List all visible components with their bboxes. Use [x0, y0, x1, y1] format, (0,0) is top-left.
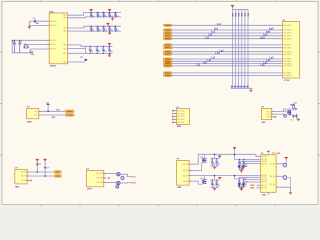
- wire bottom stub: [267, 192, 269, 195]
- svg-text:C?: C?: [33, 18, 35, 20]
- wire capB top rail: [210, 179, 219, 181]
- svg-text:Lw0: Lw0: [269, 29, 274, 31]
- svg-text:104: 104: [91, 16, 94, 18]
- power flag midB: [218, 177, 221, 179]
- wire QJ2 down: [287, 178, 291, 188]
- no-ERC marker: [172, 116, 173, 117]
- ground J TVS2: [240, 188, 243, 191]
- svg-text:C?: C?: [215, 160, 217, 162]
- wire bus row 5: [172, 38, 282, 40]
- capacitor C? driver mid: [292, 114, 294, 118]
- power flag 3V3 bus: [231, 5, 234, 7]
- wire VDDA to bank3: [68, 45, 86, 46]
- wire 3V3 top rail: [233, 9, 249, 11]
- svg-text:PA_SE: PA_SE: [50, 48, 56, 51]
- port net label row 9: [163, 53, 172, 55]
- U?A left pin stubs: [46, 20, 49, 22]
- wire bus row 10: [172, 58, 282, 60]
- wire TVS2b to J: [243, 179, 260, 181]
- capacitor C? bank3.1: [89, 46, 94, 54]
- diode array D? J-left upper: [238, 161, 240, 165]
- svg-text:PA_SE: PA_SE: [50, 43, 56, 46]
- svg-text:Lg2: Lg2: [220, 50, 225, 52]
- crystal Y?: [24, 46, 28, 49]
- wire bus row 11: [172, 60, 282, 62]
- svg-text:C?: C?: [96, 48, 98, 50]
- svg-text:C?: C?: [90, 13, 92, 15]
- junction: [44, 175, 46, 177]
- junction: [234, 175, 236, 177]
- wire to Q1: [106, 173, 116, 175]
- wire bus row 15: [172, 74, 282, 76]
- svg-text:PA_SE: PA_SE: [261, 181, 267, 184]
- svg-text:PA_SEN_I: PA_SEN_I: [284, 35, 293, 38]
- wire riser1: [36, 162, 38, 172]
- no-ERC marker: [172, 122, 173, 123]
- wire bus row 9: [172, 53, 282, 55]
- IC U? opto driver: [86, 171, 104, 187]
- svg-text:PA_SE: PA_SE: [183, 174, 189, 177]
- power flag bank2: [107, 23, 110, 25]
- wire VOUT2: [30, 175, 54, 177]
- wire bus row 8: [172, 51, 282, 53]
- header U? SWD: [176, 109, 189, 125]
- port net label row 8: [163, 51, 172, 53]
- wire TX: [41, 110, 65, 112]
- power flag bank1: [90, 9, 93, 11]
- node arrow column 2: [234, 85, 237, 88]
- ground bank1: [111, 17, 114, 20]
- no-ERC marker: [30, 180, 31, 181]
- svg-text:PA_SEN_: PA_SEN_: [97, 181, 106, 184]
- wire Q1 out: [120, 174, 130, 176]
- capacitor C? midB1: [211, 180, 216, 188]
- transistor Q? J2: [283, 176, 287, 180]
- capacitor C? bank3.3: [102, 46, 107, 54]
- svg-text:CANH: CANH: [250, 184, 256, 187]
- svg-text:104: 104: [213, 164, 216, 166]
- ground bank2: [108, 31, 111, 34]
- node arrow column 1: [231, 85, 234, 88]
- power flag 3V3 reg: [36, 159, 39, 161]
- capacitor C? midA1: [211, 158, 216, 166]
- wire Q drain: [204, 154, 206, 158]
- wire VSS1 to bank1: [68, 16, 87, 19]
- capacitor C? xtal3: [30, 52, 33, 53]
- svg-text:Lb1: Lb1: [214, 29, 219, 31]
- svg-text:C?: C?: [96, 13, 98, 15]
- capacitor C? bank2.2: [96, 26, 101, 32]
- port net label row 2: [163, 29, 172, 31]
- wire pullup riser: [47, 105, 49, 112]
- port RXD: [65, 114, 74, 116]
- wire bus row 12: [172, 63, 282, 65]
- power bar J: [267, 150, 270, 152]
- svg-text:U?A: U?A: [49, 10, 54, 13]
- wire VDD2 to bank2: [68, 26, 87, 28]
- port net label row 15: [163, 74, 172, 76]
- capacitor C? bank2.5: [114, 26, 119, 32]
- svg-text:104: 104: [104, 30, 107, 32]
- junction: [214, 175, 216, 177]
- wire to U pin2: [237, 158, 260, 160]
- port net label row 12: [163, 63, 172, 65]
- svg-text:C?: C?: [102, 27, 104, 29]
- port net label row 3: [163, 32, 172, 34]
- svg-text:PA_SE: PA_SE: [261, 162, 267, 165]
- node arrow column 3: [238, 85, 241, 88]
- svg-text:104: 104: [90, 51, 93, 53]
- capacitor C? rightB1: [238, 178, 243, 187]
- port net label row 13: [163, 65, 172, 67]
- svg-text:104: 104: [116, 16, 119, 18]
- wire bank3 left vertical: [84, 46, 86, 53]
- capacitor C? bank1.2: [96, 12, 101, 18]
- transistor Q? H1: [117, 173, 120, 176]
- ground rightB: [240, 186, 243, 189]
- svg-text:Lw2: Lw2: [263, 35, 268, 37]
- port VOUT2: [54, 175, 62, 177]
- off-sheet connector: [85, 59, 88, 62]
- svg-text:C?: C?: [108, 27, 110, 29]
- transistor Q? high-side 2: [203, 179, 207, 183]
- wire capA bottom rail: [210, 165, 219, 167]
- capacitor C? xtal2: [18, 40, 21, 53]
- ground midA: [213, 166, 216, 169]
- capacitor C? bank2.3: [102, 26, 107, 32]
- svg-text:C?: C?: [96, 27, 98, 29]
- svg-text:PA_SEN_I: PA_SEN_I: [284, 44, 293, 47]
- svg-text:Y?: Y?: [24, 44, 26, 46]
- wire riser capB: [214, 176, 216, 181]
- no-ERC marker: [172, 110, 173, 111]
- svg-text:C?: C?: [114, 13, 116, 15]
- diode array D? J-left lower: [238, 177, 240, 183]
- wire power column 2: [235, 10, 237, 86]
- wire to Q3: [106, 182, 116, 184]
- power flag midA: [218, 156, 221, 158]
- port net label row 4: [163, 35, 172, 37]
- svg-text:C?: C?: [108, 48, 110, 50]
- ground J right: [289, 192, 292, 194]
- wire power column 3: [238, 10, 240, 86]
- no-ERC marker: [108, 177, 109, 178]
- connector P?: [27, 108, 39, 118]
- capacitor C? xtal1: [13, 40, 16, 53]
- capacitor C? bank2.1: [90, 26, 95, 32]
- capacitor C? reset: [34, 20, 35, 23]
- svg-text:PA_SE: PA_SE: [261, 184, 267, 187]
- wire Q2 gate: [192, 181, 203, 184]
- svg-text:PA_SE: PA_SE: [261, 187, 267, 190]
- transistor Q? big blob: [288, 110, 292, 115]
- svg-text:104: 104: [217, 164, 220, 166]
- wire power column 4: [241, 10, 243, 86]
- svg-text:PA_SEN_: PA_SEN_: [97, 172, 106, 175]
- svg-text:C?: C?: [20, 41, 22, 43]
- svg-text:Q?: Q?: [284, 111, 286, 113]
- no-ERC marker: [172, 119, 173, 120]
- power flag bank3: [108, 43, 111, 45]
- svg-text:OUT2: OUT2: [131, 182, 136, 184]
- svg-text:104: 104: [213, 185, 216, 187]
- svg-text:Lw1: Lw1: [266, 32, 271, 34]
- svg-text:PA_SE: PA_SE: [270, 162, 276, 165]
- node arrow column 5: [244, 85, 247, 88]
- op-amp U?A MCU block: [49, 13, 67, 64]
- svg-text:104: 104: [98, 30, 101, 32]
- svg-text:BT: BT: [81, 57, 83, 59]
- transistor Q? J1: [283, 163, 287, 167]
- svg-text:R?: R?: [290, 104, 292, 106]
- svg-text:C?: C?: [114, 27, 116, 29]
- wire QJ1 up: [285, 160, 287, 163]
- svg-text:104: 104: [98, 16, 101, 18]
- svg-text:PA_SE: PA_SE: [270, 175, 276, 178]
- transistor Q? H3: [117, 181, 120, 184]
- port net label row 5: [163, 38, 172, 40]
- capacitor C? bank3.2: [96, 46, 101, 54]
- svg-text:D?: D?: [245, 182, 247, 184]
- power bar VCC driver: [292, 103, 295, 105]
- svg-text:PA_SEN: PA_SEN: [177, 109, 185, 112]
- wire capA top rail: [210, 158, 219, 160]
- svg-text:U? 2/2: U? 2/2: [284, 80, 289, 82]
- svg-text:104: 104: [104, 51, 107, 53]
- svg-text:D?: D?: [245, 166, 247, 168]
- capacitor C? bank1.1: [90, 12, 95, 18]
- capacitor C? rightA2: [242, 159, 247, 167]
- svg-text:C?: C?: [47, 167, 49, 169]
- wire TVS1 bottom: [239, 169, 243, 171]
- wire bus row 13: [172, 65, 282, 67]
- svg-text:104: 104: [91, 30, 94, 32]
- svg-text:C?: C?: [215, 182, 217, 184]
- svg-text:PA_SEN_: PA_SEN_: [97, 177, 106, 180]
- wire crystal gnd rail: [12, 40, 30, 53]
- wire bus row 6: [172, 44, 282, 46]
- ground reset: [28, 25, 31, 28]
- IC U? CAN transceiver: [260, 155, 276, 193]
- svg-text:OUT1: OUT1: [131, 176, 136, 178]
- svg-text:C?: C?: [211, 182, 213, 184]
- resistor R?: [293, 106, 295, 109]
- junction: [37, 171, 39, 173]
- wire Q top: [289, 108, 291, 110]
- wire rail2: [192, 175, 261, 177]
- svg-text:Q?: Q?: [201, 178, 203, 180]
- wire RX: [41, 114, 65, 116]
- node arrow column 4: [241, 85, 244, 88]
- wire OSC_IN: [12, 39, 46, 41]
- svg-text:PA_SEN: PA_SEN: [177, 121, 185, 124]
- capacitor C? rightA1: [238, 159, 243, 167]
- wire power columns bottom rail: [231, 87, 253, 89]
- junction: [234, 154, 236, 156]
- ground rightA: [240, 167, 243, 170]
- wire power column 1: [232, 10, 234, 86]
- wire bus row 1: [172, 24, 282, 26]
- capacitor C? bank1.3: [102, 12, 107, 18]
- svg-text:PA_SE: PA_SE: [21, 179, 27, 182]
- ground J TVS1: [240, 170, 243, 173]
- svg-text:C?: C?: [12, 41, 14, 43]
- wire rightA bottom rail: [237, 166, 247, 168]
- wire Q2 drain: [204, 176, 206, 180]
- capacitor C? bank1.5: [114, 12, 119, 18]
- svg-text:Lh2: Lh2: [216, 53, 221, 55]
- wire BOOT0: [68, 61, 85, 63]
- svg-text:PA_SE: PA_SE: [183, 169, 189, 172]
- wire to QJ2: [276, 175, 283, 177]
- svg-text:C?: C?: [89, 48, 91, 50]
- svg-text:BUZ: BUZ: [262, 122, 265, 124]
- svg-text:PA_SEN_I: PA_SEN_I: [284, 46, 293, 49]
- svg-text:PA_SEN: PA_SEN: [177, 112, 185, 115]
- ground power columns: [249, 89, 252, 92]
- wire flag drop: [234, 150, 236, 159]
- svg-text:STM32: STM32: [50, 65, 56, 67]
- svg-text:104: 104: [97, 51, 100, 53]
- wire OSC_OUT: [24, 44, 47, 46]
- svg-text:PA_SE: PA_SE: [270, 183, 276, 186]
- wire riser capA: [214, 154, 216, 158]
- wire to ground: [250, 88, 252, 89]
- wire CANL: [257, 187, 261, 189]
- connector P? power: [177, 160, 190, 185]
- wire bank1 bottom rail: [87, 16, 122, 18]
- no-ERC marker: [172, 113, 173, 114]
- junction: [47, 111, 49, 113]
- svg-text:PA_SEN_I: PA_SEN_I: [284, 74, 293, 77]
- ground midB: [213, 187, 216, 190]
- wire power column 5: [244, 10, 246, 86]
- capacitor C? midA2: [215, 158, 220, 166]
- capacitor C? reg1: [36, 163, 38, 166]
- wire VDD1 to bank1: [68, 12, 87, 15]
- power flag VIN: [233, 148, 236, 150]
- svg-text:104: 104: [110, 16, 113, 18]
- svg-text:C?: C?: [102, 13, 104, 15]
- wire rightB top rail: [235, 178, 247, 180]
- wire power column 6: [247, 10, 249, 86]
- port net label row 14: [163, 72, 172, 74]
- wire NRST top: [29, 20, 46, 22]
- wire CANH: [257, 184, 261, 186]
- transistor Q? high-side 1: [203, 158, 207, 162]
- wire Q source down: [289, 115, 291, 116]
- wire VREF to bank3: [68, 48, 86, 50]
- wire bank2 bottom rail: [87, 30, 122, 32]
- svg-text:PA_SE: PA_SE: [50, 20, 56, 23]
- IC U? buzzer driver: [261, 108, 271, 119]
- wire bank1 top rail: [87, 11, 122, 13]
- svg-text:PA_SEN: PA_SEN: [177, 118, 185, 121]
- transistor Q? H2: [121, 176, 124, 179]
- opto pins: [104, 173, 106, 175]
- svg-text:PA_SE: PA_SE: [183, 180, 189, 183]
- svg-text:C?: C?: [108, 13, 110, 15]
- port net label row 6: [163, 44, 172, 46]
- wire riser2: [44, 162, 46, 176]
- wire TVS1b to J: [243, 163, 260, 165]
- wire bus row 2: [172, 29, 282, 31]
- wire to Q drain path: [274, 109, 287, 112]
- wire NRST bottom: [29, 21, 46, 25]
- no-ERC marker: [275, 116, 276, 117]
- port TXD: [65, 110, 74, 112]
- svg-text:104: 104: [104, 16, 107, 18]
- svg-text:C?: C?: [211, 160, 213, 162]
- driver pins: [272, 111, 275, 113]
- IC U? regulator: [15, 169, 27, 184]
- wire Q3 out: [120, 182, 130, 184]
- svg-text:U?: U?: [261, 153, 263, 155]
- svg-text:PA_SE: PA_SE: [183, 163, 189, 166]
- wire TVS1a to J: [239, 160, 260, 162]
- transistor Q? H4: [116, 185, 119, 188]
- wire VOUT1: [30, 171, 54, 173]
- svg-text:OPTO: OPTO: [87, 189, 92, 191]
- wire rightB bottom rail: [237, 185, 247, 187]
- diode D? right: [295, 108, 297, 110]
- wire Q gate: [192, 163, 203, 171]
- wire drop to rightB: [234, 176, 236, 179]
- svg-text:PA_SEN: PA_SEN: [177, 115, 185, 118]
- svg-text:Q?: Q?: [201, 157, 203, 159]
- wire to Q gate: [274, 114, 286, 115]
- port net label row 11: [163, 60, 172, 62]
- wire to QJ1: [276, 163, 283, 165]
- transistor Q? lower blob: [284, 115, 287, 118]
- capacitor C? reg2: [44, 166, 46, 169]
- svg-text:PA_SEN_I: PA_SEN_I: [284, 53, 293, 56]
- wire bank3 bottom rail: [85, 52, 112, 54]
- port VOUT1: [54, 171, 62, 173]
- wire top power stub: [267, 151, 269, 155]
- capacitor C? bank3.4: [108, 46, 113, 54]
- svg-text:PA_SEN_I: PA_SEN_I: [284, 29, 293, 32]
- header U? pins: [174, 110, 176, 112]
- power flag 5V reg: [44, 159, 47, 161]
- wire TVS2 bottom: [239, 187, 243, 189]
- svg-text:PA_SE: PA_SE: [21, 175, 27, 178]
- capacitor C? midB2: [215, 180, 220, 188]
- svg-text:104: 104: [116, 30, 119, 32]
- power connector pins: [189, 163, 192, 165]
- power flag J right: [285, 157, 288, 159]
- svg-text:PA_SEN_I: PA_SEN_I: [284, 24, 293, 27]
- wire bus row 7: [172, 47, 282, 49]
- svg-text:104: 104: [110, 51, 113, 53]
- wire capB bottom rail: [210, 186, 219, 188]
- wire bank3 top rail: [85, 45, 112, 47]
- svg-text:Lw3: Lw3: [260, 37, 265, 39]
- port net label row 7: [163, 47, 172, 49]
- regulator pins: [27, 171, 30, 173]
- svg-text:104: 104: [110, 30, 113, 32]
- capacitor C? driver right: [295, 114, 297, 119]
- ground bank3: [108, 53, 111, 56]
- wire R top: [293, 104, 295, 105]
- wire VIN top rail: [192, 154, 261, 164]
- svg-text:Ld1: Ld1: [208, 35, 213, 37]
- svg-text:VCC_CAN: VCC_CAN: [272, 152, 281, 155]
- svg-text:C?: C?: [102, 48, 104, 50]
- wire mid to J: [246, 181, 260, 183]
- svg-text:La1: La1: [217, 24, 222, 26]
- port net label row 1: [163, 24, 172, 26]
